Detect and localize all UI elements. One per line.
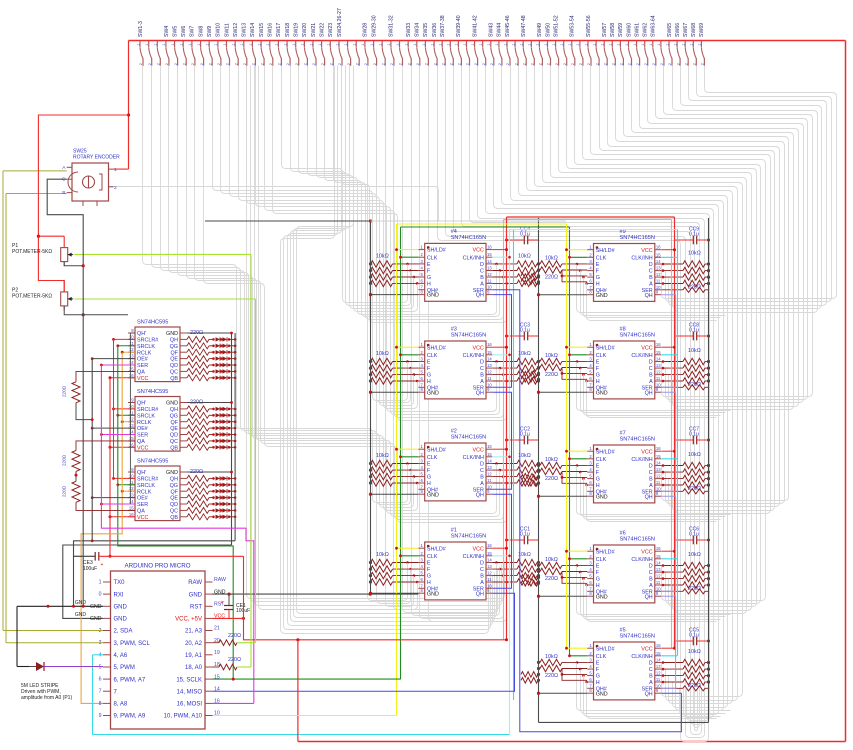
svg-text:OE#: OE# — [137, 426, 148, 432]
svg-text:13: 13 — [656, 664, 661, 669]
svg-text:1: 1 — [171, 43, 175, 45]
svg-text:0.1u: 0.1u — [520, 328, 530, 334]
svg-text:14: 14 — [656, 357, 661, 362]
svg-text:SW6: SW6 — [181, 26, 187, 37]
svg-text:E: E — [427, 462, 431, 468]
svg-text:220Ω: 220Ω — [228, 633, 241, 639]
svg-text:SW12: SW12 — [233, 23, 239, 37]
svg-text:SW19: SW19 — [294, 23, 300, 37]
svg-text:10kΩ: 10kΩ — [688, 251, 701, 257]
svg-text:2: 2 — [595, 63, 599, 65]
svg-text:CLK: CLK — [596, 557, 607, 563]
svg-text:QE: QE — [170, 426, 178, 432]
svg-text:1: 1 — [162, 43, 166, 45]
svg-text:H: H — [427, 580, 431, 586]
svg-text:C: C — [480, 269, 484, 275]
svg-text:1: 1 — [197, 43, 201, 45]
svg-text:1: 1 — [353, 43, 357, 45]
svg-text:15: 15 — [656, 651, 661, 656]
svg-text:G: G — [427, 574, 431, 580]
svg-text:D: D — [649, 661, 653, 667]
svg-text:RAW: RAW — [188, 580, 202, 586]
svg-text:9, PWM, A9: 9, PWM, A9 — [114, 714, 146, 720]
svg-text:14: 14 — [129, 430, 134, 435]
svg-text:2: 2 — [200, 63, 204, 65]
svg-text:5: 5 — [99, 665, 102, 671]
svg-text:QH': QH' — [137, 401, 146, 407]
svg-text:GND: GND — [189, 592, 203, 598]
svg-text:E: E — [596, 360, 600, 366]
svg-text:POT.METER-5KΩ: POT.METER-5KΩ — [12, 249, 52, 255]
svg-text:0.1u: 0.1u — [520, 532, 530, 538]
svg-text:1: 1 — [682, 43, 686, 45]
svg-text:10kΩ: 10kΩ — [376, 552, 389, 558]
svg-text:A: A — [649, 583, 653, 589]
svg-text:B: B — [480, 475, 484, 481]
svg-text:SW69: SW69 — [699, 23, 705, 37]
svg-text:SW35: SW35 — [423, 23, 429, 37]
svg-text:15: 15 — [487, 452, 492, 457]
svg-text:15: 15 — [656, 454, 661, 459]
svg-text:1: 1 — [495, 43, 499, 45]
svg-text:2: 2 — [252, 63, 256, 65]
svg-text:CLK/INH: CLK/INH — [463, 455, 484, 461]
svg-text:1: 1 — [649, 43, 653, 45]
svg-text:1: 1 — [240, 43, 244, 45]
svg-text:SW62: SW62 — [643, 23, 649, 37]
svg-text:2: 2 — [260, 63, 264, 65]
svg-text:RCLK: RCLK — [137, 489, 152, 495]
svg-text:15: 15 — [129, 505, 134, 510]
svg-text:SH/LD#: SH/LD# — [596, 449, 615, 455]
svg-text:13: 13 — [656, 467, 661, 472]
svg-text:2: 2 — [636, 63, 640, 65]
svg-text:D: D — [649, 360, 653, 366]
svg-text:2: 2 — [338, 63, 342, 65]
svg-text:B: B — [649, 477, 653, 483]
svg-text:12: 12 — [129, 417, 134, 422]
svg-text:B: B — [649, 577, 653, 583]
svg-text:10kΩ: 10kΩ — [376, 351, 389, 357]
svg-text:SW31-32: SW31-32 — [389, 15, 395, 37]
svg-text:1: 1 — [318, 43, 322, 45]
svg-text:20, A2: 20, A2 — [185, 641, 203, 647]
svg-text:VCC: VCC — [473, 447, 484, 453]
svg-text:220Ω: 220Ω — [545, 476, 558, 482]
svg-text:QD: QD — [170, 433, 178, 439]
svg-text:15: 15 — [656, 252, 661, 257]
svg-text:2: 2 — [390, 63, 394, 65]
svg-text:2: 2 — [355, 63, 359, 65]
svg-text:1: 1 — [633, 43, 637, 45]
svg-text:2: 2 — [157, 63, 161, 65]
svg-text:QG: QG — [170, 413, 178, 419]
svg-text:SW29-30: SW29-30 — [371, 15, 377, 37]
svg-text:2: 2 — [563, 63, 567, 65]
svg-text:QH': QH' — [137, 331, 146, 337]
svg-text:1: 1 — [520, 43, 524, 45]
svg-text:14: 14 — [129, 499, 134, 504]
svg-text:21: 21 — [214, 626, 220, 632]
svg-text:SW51-52: SW51-52 — [553, 15, 559, 37]
svg-text:1: 1 — [479, 43, 483, 45]
svg-text:1: 1 — [379, 43, 383, 45]
svg-text:QF: QF — [171, 489, 179, 495]
svg-text:H: H — [596, 379, 600, 385]
svg-text:GND: GND — [427, 293, 439, 299]
svg-text:SN74HC165N: SN74HC165N — [620, 437, 655, 443]
svg-text:1: 1 — [344, 43, 348, 45]
svg-text:0.1u: 0.1u — [689, 328, 699, 334]
svg-text:1: 1 — [327, 43, 331, 45]
svg-text:3, PWM, SCL: 3, PWM, SCL — [114, 641, 151, 647]
svg-text:15: 15 — [129, 436, 134, 441]
svg-text:15: 15 — [129, 366, 134, 371]
svg-text:15: 15 — [487, 551, 492, 556]
svg-text:OE#: OE# — [137, 357, 148, 363]
svg-text:1: 1 — [430, 43, 434, 45]
svg-text:QE: QE — [170, 357, 178, 363]
svg-text:SW61: SW61 — [634, 23, 640, 37]
svg-text:14: 14 — [214, 686, 220, 692]
svg-text:10kΩ: 10kΩ — [688, 452, 701, 458]
svg-text:CLK/INH: CLK/INH — [463, 353, 484, 359]
svg-text:2: 2 — [381, 63, 385, 65]
svg-text:16: 16 — [656, 446, 661, 451]
svg-text:QH: QH — [170, 407, 178, 413]
svg-text:1: 1 — [387, 43, 391, 45]
svg-text:1: 1 — [609, 43, 613, 45]
svg-text:18, A0: 18, A0 — [185, 665, 203, 671]
svg-text:2: 2 — [399, 63, 403, 65]
svg-text:12: 12 — [656, 671, 661, 676]
svg-text:+: + — [221, 600, 224, 606]
svg-text:1: 1 — [568, 43, 572, 45]
svg-text:11: 11 — [656, 480, 661, 485]
svg-text:VCC: VCC — [137, 445, 148, 451]
svg-text:2: 2 — [693, 63, 697, 65]
svg-text:SRCLR#: SRCLR# — [137, 338, 158, 344]
svg-text:QG: QG — [170, 344, 178, 350]
svg-text:1: 1 — [370, 43, 374, 45]
svg-text:SW60: SW60 — [626, 23, 632, 37]
svg-text:CLK/INH: CLK/INH — [631, 255, 652, 261]
svg-text:SW10: SW10 — [216, 23, 222, 37]
svg-text:1: 1 — [439, 43, 443, 45]
svg-text:1: 1 — [232, 43, 236, 45]
svg-text:1: 1 — [511, 43, 515, 45]
svg-text:SW57: SW57 — [602, 23, 608, 37]
svg-text:C: C — [480, 567, 484, 573]
svg-text:RCLK: RCLK — [137, 420, 152, 426]
svg-text:VCC: VCC — [473, 345, 484, 351]
svg-text:2: 2 — [701, 63, 705, 65]
svg-text:10kΩ: 10kΩ — [518, 253, 531, 259]
svg-text:SN74HC165N: SN74HC165N — [451, 333, 486, 339]
svg-text:1: 1 — [136, 43, 140, 45]
svg-text:SW55-56: SW55-56 — [586, 15, 592, 37]
svg-text:11: 11 — [656, 279, 661, 284]
svg-text:1: 1 — [422, 43, 426, 45]
svg-text:12: 12 — [656, 574, 661, 579]
svg-text:E: E — [596, 464, 600, 470]
svg-text:2: 2 — [114, 185, 117, 191]
svg-text:SW39-40: SW39-40 — [456, 15, 462, 37]
svg-text:GND: GND — [427, 390, 439, 396]
svg-text:+: + — [101, 562, 104, 568]
svg-text:G: G — [427, 475, 431, 481]
svg-text:2: 2 — [652, 63, 656, 65]
svg-text:E: E — [596, 262, 600, 268]
svg-text:14: 14 — [487, 558, 492, 563]
svg-text:1: 1 — [576, 43, 580, 45]
svg-text:16: 16 — [129, 442, 134, 447]
svg-text:2: 2 — [482, 63, 486, 65]
svg-text:RCLK: RCLK — [137, 350, 152, 356]
svg-text:1: 1 — [617, 43, 621, 45]
svg-text:G: G — [427, 373, 431, 379]
svg-text:0.1u: 0.1u — [689, 532, 699, 538]
svg-text:H: H — [596, 282, 600, 288]
svg-text:2: 2 — [321, 63, 325, 65]
svg-text:SW16: SW16 — [268, 23, 274, 37]
svg-text:1: 1 — [463, 43, 467, 45]
svg-text:2: 2 — [684, 63, 688, 65]
svg-text:10kΩ: 10kΩ — [688, 348, 701, 354]
svg-text:13: 13 — [487, 465, 492, 470]
svg-text:SER: SER — [137, 433, 148, 439]
svg-text:GND: GND — [75, 612, 87, 618]
svg-text:1: 1 — [145, 43, 149, 45]
svg-text:VCC: VCC — [641, 248, 652, 254]
svg-text:SW33: SW33 — [406, 23, 412, 37]
svg-text:D: D — [649, 464, 653, 470]
svg-text:11: 11 — [656, 580, 661, 585]
svg-text:1: 1 — [361, 43, 365, 45]
svg-text:1: 1 — [536, 43, 540, 45]
svg-text:2: 2 — [373, 63, 377, 65]
svg-text:11: 11 — [656, 677, 661, 682]
svg-text:C: C — [649, 470, 653, 476]
svg-text:SW45-46: SW45-46 — [505, 15, 511, 37]
svg-text:1: 1 — [249, 43, 253, 45]
svg-text:12: 12 — [487, 370, 492, 375]
svg-text:SH/LD#: SH/LD# — [427, 248, 446, 254]
svg-text:GND: GND — [427, 591, 439, 597]
svg-text:2: 2 — [547, 63, 551, 65]
svg-text:220Ω: 220Ω — [545, 576, 558, 582]
svg-text:CLK: CLK — [427, 353, 438, 359]
svg-text:2: 2 — [217, 63, 221, 65]
svg-text:GND: GND — [166, 401, 178, 407]
svg-text:H: H — [596, 583, 600, 589]
svg-text:13: 13 — [656, 363, 661, 368]
svg-text:A: A — [480, 379, 484, 385]
svg-text:QH: QH — [645, 494, 653, 500]
svg-text:QA: QA — [137, 439, 145, 445]
svg-text:13: 13 — [656, 266, 661, 271]
svg-text:16: 16 — [656, 546, 661, 551]
svg-text:SW14: SW14 — [250, 23, 256, 37]
svg-text:2: 2 — [304, 63, 308, 65]
svg-text:SW22: SW22 — [319, 23, 325, 37]
svg-text:QG: QG — [170, 483, 178, 489]
svg-text:10kΩ: 10kΩ — [545, 353, 558, 359]
svg-text:A: A — [480, 580, 484, 586]
svg-text:1: 1 — [188, 43, 192, 45]
svg-text:8, A8: 8, A8 — [114, 702, 128, 708]
svg-text:2: 2 — [234, 63, 238, 65]
svg-text:1: 1 — [283, 43, 287, 45]
svg-text:SW67: SW67 — [683, 23, 689, 37]
svg-text:1: 1 — [503, 43, 507, 45]
svg-text:SW20: SW20 — [302, 23, 308, 37]
svg-text:VCC: VCC — [137, 515, 148, 521]
svg-text:1: 1 — [592, 43, 596, 45]
svg-text:A: A — [649, 680, 653, 686]
svg-text:H: H — [427, 481, 431, 487]
svg-text:POT.METER-5KΩ: POT.METER-5KΩ — [12, 294, 52, 300]
svg-text:16: 16 — [487, 342, 492, 347]
svg-text:220Ω: 220Ω — [62, 385, 67, 397]
svg-text:SN74HC595: SN74HC595 — [137, 320, 168, 326]
svg-text:16: 16 — [487, 444, 492, 449]
svg-text:1: 1 — [405, 43, 409, 45]
svg-text:16: 16 — [656, 643, 661, 648]
svg-text:G: G — [596, 373, 600, 379]
svg-text:SW23: SW23 — [328, 23, 334, 37]
svg-text:SW8: SW8 — [198, 26, 204, 37]
svg-text:13: 13 — [129, 423, 134, 428]
svg-text:CLK: CLK — [427, 255, 438, 261]
svg-text:15: 15 — [656, 350, 661, 355]
svg-text:16: 16 — [487, 543, 492, 548]
svg-text:10kΩ: 10kΩ — [545, 557, 558, 563]
svg-text:SRCLK: SRCLK — [137, 344, 155, 350]
svg-text:SH/LD#: SH/LD# — [596, 248, 615, 254]
svg-text:2: 2 — [555, 63, 559, 65]
svg-text:A: A — [649, 483, 653, 489]
svg-text:6, PWM, A7: 6, PWM, A7 — [114, 677, 146, 683]
svg-text:SW50: SW50 — [545, 23, 551, 37]
svg-text:1: 1 — [487, 43, 491, 45]
svg-text:220Ω: 220Ω — [62, 485, 67, 497]
svg-text:2: 2 — [407, 63, 411, 65]
svg-text:SW7: SW7 — [190, 26, 196, 37]
svg-text:QA: QA — [137, 509, 145, 515]
svg-text:2: 2 — [676, 63, 680, 65]
svg-text:CLK: CLK — [427, 554, 438, 560]
svg-text:2: 2 — [522, 63, 526, 65]
svg-text:SW37-38: SW37-38 — [440, 15, 446, 37]
svg-text:220Ω: 220Ω — [545, 372, 558, 378]
svg-text:CLK: CLK — [596, 353, 607, 359]
svg-text:CLK/INH: CLK/INH — [631, 557, 652, 563]
svg-text:ARDUINO PRO MICRO: ARDUINO PRO MICRO — [125, 563, 191, 570]
svg-text:SER: SER — [137, 502, 148, 508]
svg-text:VCC: VCC — [641, 449, 652, 455]
svg-text:A: A — [649, 282, 653, 288]
svg-text:1: 1 — [335, 43, 339, 45]
svg-text:12: 12 — [487, 272, 492, 277]
svg-text:D: D — [480, 561, 484, 567]
svg-text:16: 16 — [129, 512, 134, 517]
svg-text:15: 15 — [656, 554, 661, 559]
svg-text:SW49: SW49 — [537, 23, 543, 37]
svg-text:SH/LD#: SH/LD# — [596, 646, 615, 652]
svg-text:14: 14 — [656, 259, 661, 264]
svg-text:C: C — [649, 667, 653, 673]
svg-text:B: B — [480, 275, 484, 281]
svg-text:C: C — [649, 570, 653, 576]
svg-text:SW41-42: SW41-42 — [472, 15, 478, 37]
svg-text:2, SDA: 2, SDA — [114, 629, 133, 635]
svg-text:QH: QH — [645, 691, 653, 697]
svg-text:SN74HC165N: SN74HC165N — [620, 537, 655, 543]
svg-text:1: 1 — [455, 43, 459, 45]
svg-text:SW28: SW28 — [363, 23, 369, 37]
svg-text:14: 14 — [487, 259, 492, 264]
svg-text:GND: GND — [596, 691, 608, 697]
svg-text:10kΩ: 10kΩ — [545, 256, 558, 262]
svg-text:0: 0 — [99, 592, 102, 598]
svg-text:2: 2 — [612, 63, 616, 65]
svg-text:2: 2 — [579, 63, 583, 65]
svg-text:7: 7 — [99, 689, 102, 695]
svg-text:13: 13 — [487, 266, 492, 271]
svg-text:12: 12 — [129, 486, 134, 491]
svg-text:2: 2 — [628, 63, 632, 65]
svg-text:SRCLK: SRCLK — [137, 413, 155, 419]
svg-text:2: 2 — [226, 63, 230, 65]
svg-text:SH/LD#: SH/LD# — [596, 345, 615, 351]
svg-text:1: 1 — [180, 43, 184, 45]
svg-text:G: G — [596, 577, 600, 583]
svg-text:16: 16 — [129, 373, 134, 378]
svg-text:10kΩ: 10kΩ — [545, 654, 558, 660]
svg-text:CLK: CLK — [596, 255, 607, 261]
svg-text:1: 1 — [99, 580, 102, 586]
svg-text:CLK/INH: CLK/INH — [631, 353, 652, 359]
svg-text:QF: QF — [171, 350, 179, 356]
svg-text:VCC: VCC — [641, 549, 652, 555]
svg-text:2: 2 — [644, 63, 648, 65]
svg-text:8: 8 — [99, 701, 102, 707]
svg-text:SRCLR#: SRCLR# — [137, 407, 158, 413]
svg-text:B: B — [480, 373, 484, 379]
svg-text:1: 1 — [584, 43, 588, 45]
svg-text:RAW: RAW — [214, 577, 226, 583]
svg-text:D: D — [480, 262, 484, 268]
svg-text:SW11: SW11 — [224, 23, 230, 37]
svg-text:2: 2 — [416, 63, 420, 65]
svg-text:2: 2 — [278, 63, 282, 65]
svg-text:1: 1 — [275, 43, 279, 45]
svg-text:16, MOSI: 16, MOSI — [177, 702, 203, 708]
svg-text:15: 15 — [487, 252, 492, 257]
svg-text:1: 1 — [657, 43, 661, 45]
svg-text:GND: GND — [114, 617, 128, 623]
svg-text:C: C — [480, 366, 484, 372]
svg-text:12: 12 — [487, 472, 492, 477]
svg-text:220Ω: 220Ω — [545, 673, 558, 679]
svg-text:C: C — [480, 468, 484, 474]
svg-text:B: B — [480, 574, 484, 580]
svg-text:QB: QB — [170, 376, 178, 382]
svg-text:1: 1 — [214, 43, 218, 45]
svg-text:2: 2 — [174, 63, 178, 65]
svg-text:13: 13 — [487, 363, 492, 368]
